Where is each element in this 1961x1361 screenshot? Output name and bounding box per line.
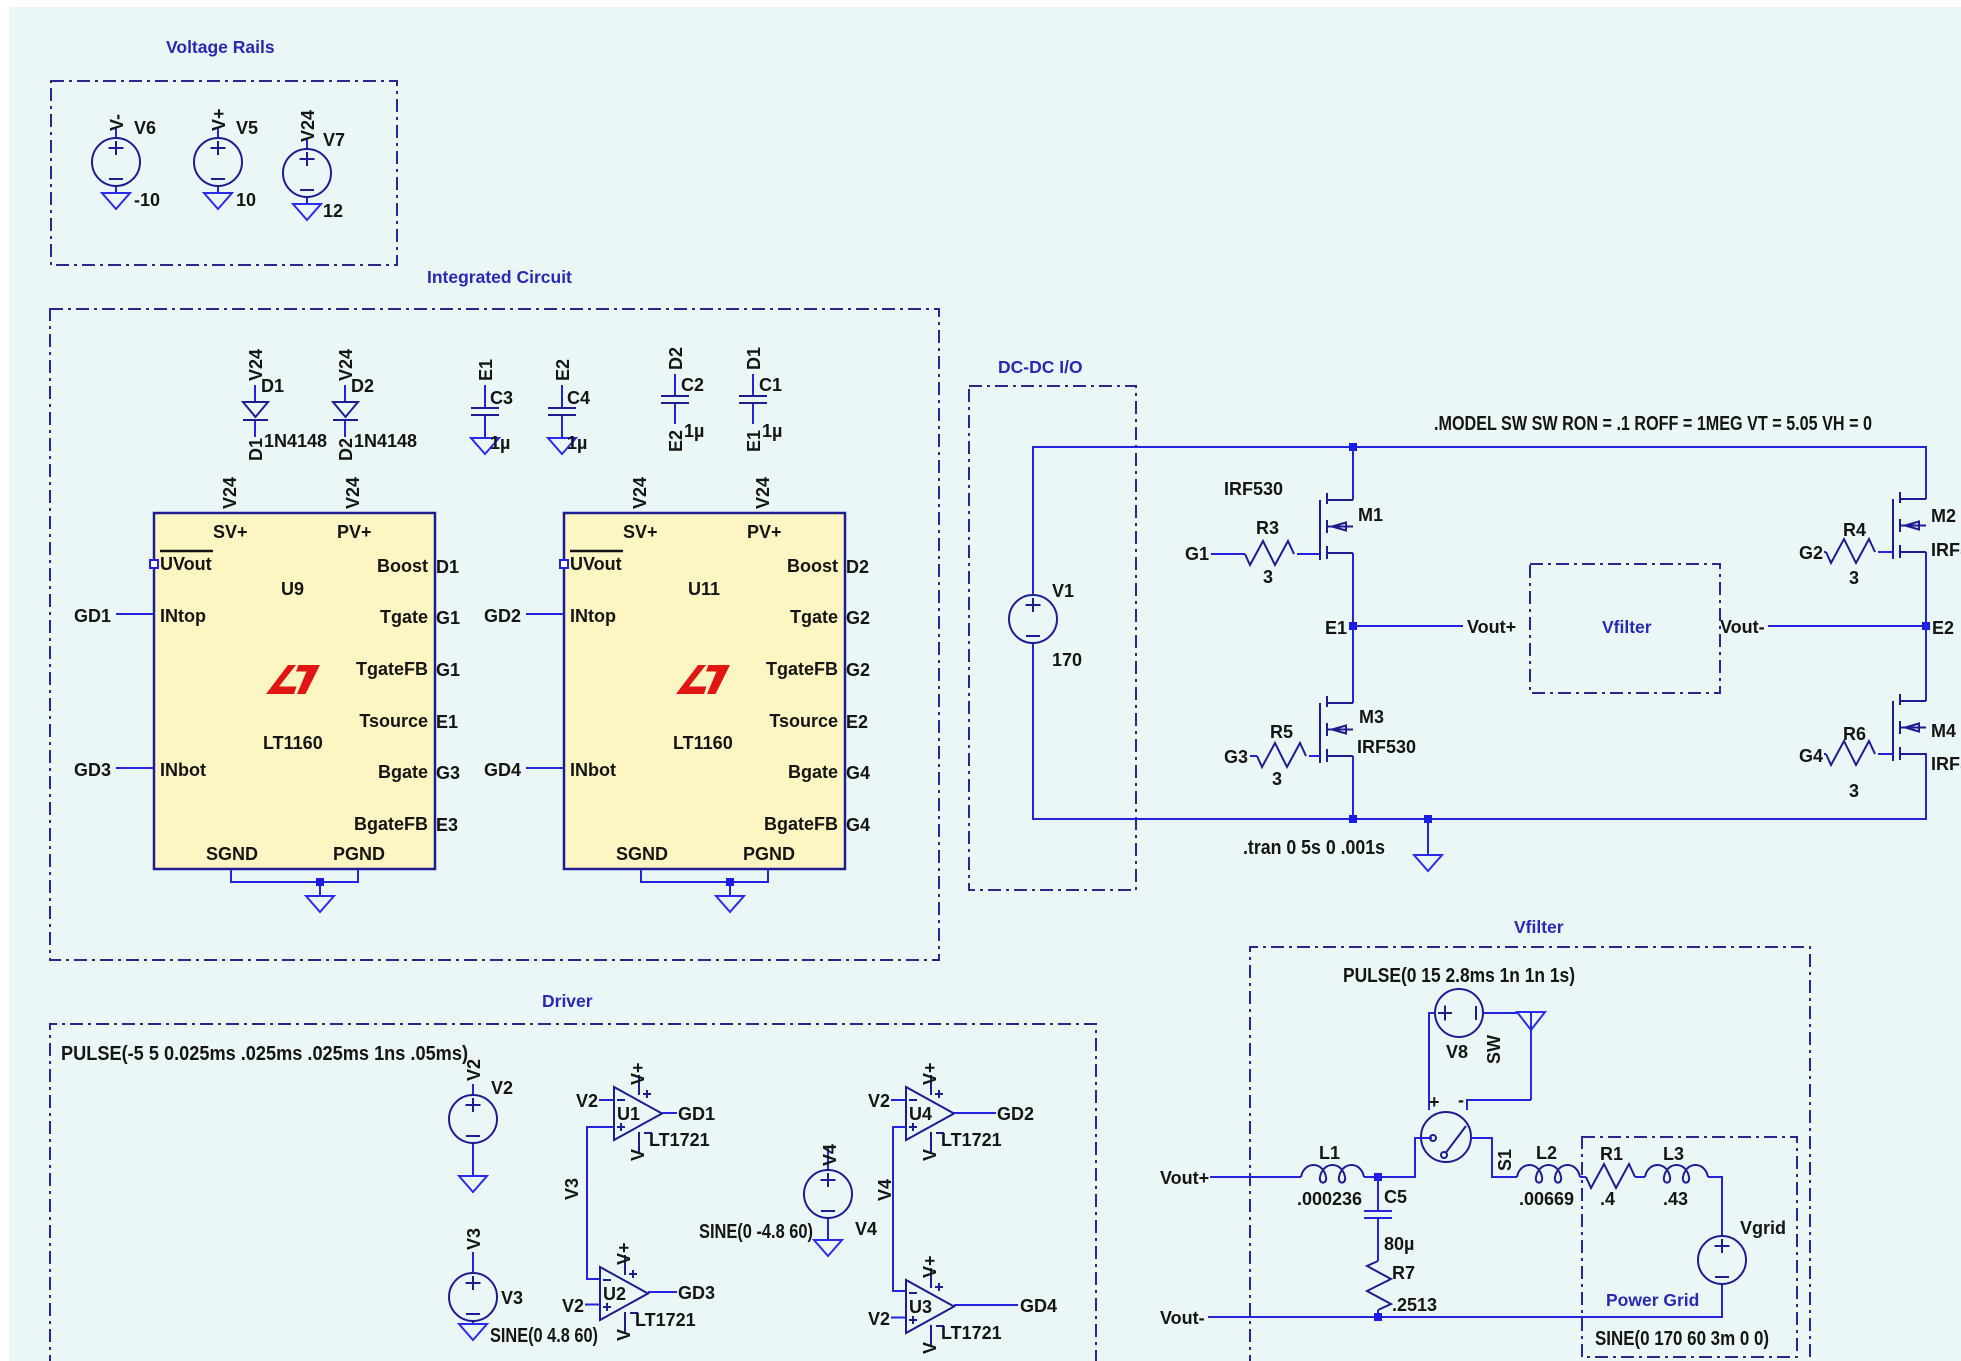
wire M4 source to bottom rail (1925, 754, 1927, 819)
voltage rails dashed box (51, 81, 397, 265)
svg-text:Tgate: Tgate (380, 607, 428, 627)
wire top rail V1 to M2 (1033, 447, 1926, 594)
svg-text:U9: U9 (281, 579, 304, 599)
svg-text:D1: D1 (744, 347, 764, 370)
svg-text:3: 3 (1849, 568, 1859, 588)
svg-text:GD3: GD3 (678, 1283, 715, 1303)
ground of DC-DC loop (1414, 855, 1442, 871)
svg-text:V: V (628, 1149, 648, 1161)
junction E1 (1349, 622, 1357, 630)
ground below C3 (471, 438, 499, 454)
wire stub V2 (472, 1084, 474, 1176)
ground below V6 (102, 193, 130, 209)
voltage source V7 (283, 149, 331, 197)
svg-text:V1: V1 (1052, 581, 1074, 601)
svg-text:Vout-: Vout- (1720, 617, 1765, 637)
junction top rail M1 drain (1349, 443, 1357, 451)
svg-text:E3: E3 (436, 815, 458, 835)
svg-text:12: 12 (323, 201, 343, 221)
svg-text:PULSE(-5 5 0.025ms .025ms .025: PULSE(-5 5 0.025ms .025ms .025ms 1ns .05… (61, 1043, 468, 1065)
diode D2 stubs (344, 385, 346, 437)
svg-text:V+: V+ (628, 1062, 648, 1085)
svg-text:G3: G3 (1224, 747, 1248, 767)
svg-text:170: 170 (1052, 650, 1082, 670)
ground stub bottom rail (1427, 819, 1429, 855)
svg-text:M2: M2 (1931, 506, 1956, 526)
svg-text:Boost: Boost (787, 556, 838, 576)
ground below V5 (204, 193, 232, 209)
svg-text:V+: V+ (920, 1062, 940, 1085)
wire U4 output GD2 (954, 1112, 996, 1114)
svg-text:GD4: GD4 (1020, 1296, 1057, 1316)
svg-text:V: V (920, 1342, 940, 1354)
transistor M1 (1320, 493, 1353, 560)
wire M1 source to E1 to M3 drain (1352, 553, 1354, 703)
junction U9 ground (316, 878, 324, 886)
transistor M4 (1893, 694, 1926, 761)
svg-text:E2: E2 (1932, 618, 1954, 638)
wire R1 to L3 (1635, 1176, 1645, 1178)
svg-text:U4: U4 (909, 1104, 932, 1124)
junction U11 ground (726, 878, 734, 886)
IC U9 body LT1160 (154, 513, 435, 869)
svg-text:E1: E1 (744, 430, 764, 452)
svg-text:.MODEL SW SW RON = .1 ROFF = 1: .MODEL SW SW RON = .1 ROFF = 1MEG VT = 5… (1434, 413, 1872, 435)
svg-text:V4: V4 (855, 1219, 877, 1239)
svg-text:D2: D2 (336, 438, 356, 461)
svg-text:R6: R6 (1843, 724, 1866, 744)
resistor R7 vertical (1367, 1261, 1391, 1310)
wire R3 to M1 gate (1297, 553, 1320, 555)
svg-text:V2: V2 (868, 1091, 890, 1111)
diode D1 (243, 402, 268, 420)
inductor L1 (1301, 1165, 1364, 1183)
svg-text:E2: E2 (846, 712, 868, 732)
ground below V7 (293, 204, 321, 220)
svg-text:SGND: SGND (206, 844, 258, 864)
wire Vout+ to L1 (1210, 1176, 1301, 1178)
wire stub V4 (827, 1148, 829, 1240)
wire G2 to R4 (1824, 551, 1826, 553)
svg-text:D1: D1 (261, 376, 284, 396)
vfilter dashed box (1250, 947, 1810, 1361)
capacitor C4 stubs (561, 385, 563, 438)
capacitor C1 stubs (752, 374, 754, 424)
svg-text:SW: SW (1484, 1035, 1504, 1064)
svg-text:Driver: Driver (542, 991, 593, 1011)
svg-text:BgateFB: BgateFB (764, 814, 838, 834)
junction C5 top (1374, 1173, 1382, 1181)
wire U3 output GD4 (954, 1304, 1018, 1306)
svg-text:R3: R3 (1256, 518, 1279, 538)
svg-text:IRF530: IRF530 (1931, 754, 1961, 774)
svg-text:IRF530: IRF530 (1357, 737, 1416, 757)
wire V8 minus to antenna node (1483, 1012, 1517, 1014)
svg-text:3: 3 (1272, 769, 1282, 789)
svg-text:L3: L3 (1663, 1144, 1684, 1164)
svg-text:Vgrid: Vgrid (1740, 1218, 1786, 1238)
ground below U11 (716, 896, 744, 912)
svg-text:Boost: Boost (377, 556, 428, 576)
svg-text:GD3: GD3 (74, 760, 111, 780)
junction Vout- R7 (1374, 1313, 1382, 1321)
svg-text:U11: U11 (688, 579, 720, 599)
svg-text:DC-DC I/O: DC-DC I/O (998, 357, 1083, 377)
svg-text:G3: G3 (436, 763, 460, 783)
wire Vout- rail (1208, 1284, 1722, 1317)
svg-text:Vout-: Vout- (1160, 1308, 1205, 1328)
svg-text:V-: V- (107, 114, 127, 131)
capacitor C5 (1364, 1177, 1392, 1261)
svg-text:IRF530: IRF530 (1931, 540, 1961, 560)
svg-text:PULSE(0 15 2.8ms 1n 1n 1s): PULSE(0 15 2.8ms 1n 1n 1s) (1343, 965, 1575, 987)
svg-text:U1: U1 (617, 1104, 640, 1124)
svg-text:V: V (920, 1149, 940, 1161)
vfilter reference dashed box (1530, 564, 1720, 693)
svg-text:.tran 0 5s 0 .001s: .tran 0 5s 0 .001s (1243, 837, 1385, 859)
junction bottom rail M3 (1349, 815, 1357, 823)
svg-text:PGND: PGND (743, 844, 795, 864)
wire GD4 to INbot U11 (526, 767, 564, 769)
svg-text:M4: M4 (1931, 721, 1956, 741)
svg-text:V2: V2 (868, 1309, 890, 1329)
resistor R6 (1826, 741, 1875, 765)
svg-text:R7: R7 (1392, 1263, 1415, 1283)
wire M3 source to bottom rail (1352, 756, 1354, 819)
svg-text:D2: D2 (666, 347, 686, 370)
wire U1 output GD1 (662, 1112, 677, 1114)
wire stub V7 (306, 138, 308, 204)
svg-text:G2: G2 (1799, 543, 1823, 563)
svg-text:LT1721: LT1721 (941, 1323, 1002, 1343)
svg-text:PV+: PV+ (337, 522, 372, 542)
svg-text:G4: G4 (846, 815, 870, 835)
svg-text:1µ: 1µ (490, 433, 510, 453)
svg-text:LT1721: LT1721 (941, 1130, 1002, 1150)
wire GD3 to INbot (116, 767, 154, 769)
voltage source V4 (804, 1170, 852, 1218)
svg-text:UVout: UVout (570, 554, 622, 574)
wire V2 to U2 plus input (585, 1304, 600, 1306)
capacitor C1 (739, 396, 767, 403)
svg-text:80µ: 80µ (1384, 1234, 1414, 1254)
integrated circuit dashed box (50, 309, 939, 960)
svg-text:LT1721: LT1721 (649, 1130, 710, 1150)
UVout open pin square U11 (560, 560, 568, 568)
svg-text:C3: C3 (490, 388, 513, 408)
svg-text:V+: V+ (614, 1242, 634, 1265)
U9 ground bus wires (231, 869, 358, 896)
resistor R3 (1245, 541, 1294, 565)
svg-text:1µ: 1µ (567, 433, 587, 453)
svg-text:SINE(0 -4.8 60): SINE(0 -4.8 60) (699, 1221, 813, 1243)
svg-text:V3: V3 (464, 1228, 484, 1250)
wire switch right to L2 (1471, 1138, 1517, 1177)
svg-text:V2: V2 (562, 1296, 584, 1316)
svg-text:BgateFB: BgateFB (354, 814, 428, 834)
capacitor C2 stubs (674, 374, 676, 424)
wire bottom rail (1033, 644, 1926, 819)
ground below U9 (306, 896, 334, 912)
svg-text:.2513: .2513 (1392, 1295, 1437, 1315)
svg-text:PV+: PV+ (747, 522, 782, 542)
wire L3 to Vgrid (1708, 1177, 1722, 1236)
wire G1 to R3 (1211, 553, 1245, 555)
capacitor C3 (471, 408, 499, 415)
svg-text:SINE(0 170 60 3m 0 0): SINE(0 170 60 3m 0 0) (1595, 1328, 1769, 1350)
voltage source V3 (449, 1273, 497, 1321)
svg-text:UVout: UVout (160, 554, 212, 574)
svg-text:V2: V2 (464, 1059, 484, 1081)
svg-text:V24: V24 (343, 477, 363, 509)
svg-text:E2: E2 (666, 430, 686, 452)
svg-text:1µ: 1µ (684, 421, 704, 441)
svg-text:C4: C4 (567, 388, 590, 408)
svg-text:D2: D2 (846, 557, 869, 577)
inductor L2 (1517, 1165, 1580, 1183)
wire M2 source to E2 to M4 drain (1925, 552, 1927, 701)
svg-text:G2: G2 (846, 608, 870, 628)
wire V2 to U4 minus input (891, 1099, 906, 1101)
svg-text:V+: V+ (209, 108, 229, 131)
svg-text:SGND: SGND (616, 844, 668, 864)
svg-text:Vfilter: Vfilter (1602, 617, 1652, 637)
svg-text:TgateFB: TgateFB (766, 659, 838, 679)
UVout open pin square (150, 560, 158, 568)
svg-text:G1: G1 (436, 608, 460, 628)
resistor R4 (1826, 539, 1875, 563)
svg-text:GD2: GD2 (484, 606, 521, 626)
capacitor C4 (548, 408, 576, 415)
svg-text:G1: G1 (436, 660, 460, 680)
svg-text:M1: M1 (1358, 505, 1383, 525)
svg-text:G4: G4 (1799, 746, 1823, 766)
svg-text:SV+: SV+ (623, 522, 658, 542)
svg-text:E1: E1 (436, 712, 458, 732)
voltage source V2 (449, 1095, 497, 1143)
voltage source V6 (92, 138, 140, 186)
wire stub V5 (217, 127, 219, 193)
transistor M2 (1893, 492, 1926, 559)
svg-text:1N4148: 1N4148 (354, 431, 417, 451)
svg-text:Vout+: Vout+ (1160, 1168, 1209, 1188)
svg-text:.4: .4 (1600, 1189, 1615, 1209)
wire M1 drain (1352, 447, 1354, 500)
svg-text:LT1160: LT1160 (263, 733, 323, 753)
svg-text:INtop: INtop (160, 606, 206, 626)
svg-text:D1: D1 (436, 557, 459, 577)
svg-text:G1: G1 (1185, 544, 1209, 564)
svg-text:Voltage Rails: Voltage Rails (166, 37, 275, 57)
voltage source V8 rotated (1435, 989, 1483, 1037)
svg-text:E1: E1 (1325, 618, 1347, 638)
svg-text:10: 10 (236, 190, 256, 210)
svg-text:GD1: GD1 (74, 606, 111, 626)
wire L2 to R1 (1580, 1176, 1586, 1178)
LT logo U9 (266, 665, 320, 694)
svg-text:.000236: .000236 (1297, 1189, 1362, 1209)
wire R7 to Vout- rail (1377, 1310, 1379, 1317)
op-amp U4 (906, 1075, 954, 1152)
svg-text:E2: E2 (553, 359, 573, 381)
wire GD2 to INtop U11 (526, 613, 564, 615)
svg-text:V3: V3 (562, 1178, 582, 1200)
svg-text:Vout+: Vout+ (1467, 617, 1516, 637)
svg-text:D1: D1 (246, 438, 266, 461)
transistor M3 (1320, 696, 1353, 763)
diode D2 (333, 402, 358, 420)
driver dashed box (50, 1024, 1096, 1361)
capacitor C2 (661, 396, 689, 403)
wire stub V3 (472, 1252, 474, 1324)
wire L1 to C5 junction to switch (1364, 1138, 1432, 1177)
svg-text:GD4: GD4 (484, 760, 521, 780)
svg-text:3: 3 (1263, 567, 1273, 587)
op-amp U2 (600, 1255, 648, 1332)
svg-text:V2: V2 (576, 1091, 598, 1111)
wire Vout- to E2 (1768, 625, 1926, 627)
svg-text:GD1: GD1 (678, 1104, 715, 1124)
svg-text:Power Grid: Power Grid (1606, 1290, 1699, 1310)
wire stub V6 (115, 127, 117, 193)
svg-text:V24: V24 (220, 477, 240, 509)
voltage source V5 (194, 138, 242, 186)
IC U11 body LT1160 (564, 513, 845, 869)
svg-text:SINE(0 4.8 60): SINE(0 4.8 60) (490, 1325, 598, 1347)
antenna symbol net SW (1517, 1012, 1545, 1100)
svg-text:1N4148: 1N4148 (264, 431, 327, 451)
svg-text:R5: R5 (1270, 722, 1293, 742)
svg-text:-10: -10 (134, 190, 160, 210)
svg-text:Bgate: Bgate (378, 762, 428, 782)
wire antenna to switch minus control (1467, 1100, 1531, 1110)
wire G4 to R6 (1824, 753, 1826, 755)
wire R6 to M4 gate (1878, 753, 1893, 755)
dc-dc io dashed box (969, 386, 1136, 890)
svg-text:M3: M3 (1359, 707, 1384, 727)
svg-text:V+: V+ (920, 1255, 940, 1278)
svg-text:1µ: 1µ (762, 421, 782, 441)
ground below V2 (459, 1176, 487, 1192)
svg-text:G4: G4 (846, 763, 870, 783)
svg-text:V7: V7 (323, 130, 345, 150)
svg-text:.43: .43 (1663, 1189, 1688, 1209)
svg-text:V2: V2 (491, 1078, 513, 1098)
svg-text:3: 3 (1849, 781, 1859, 801)
svg-text:C5: C5 (1384, 1187, 1407, 1207)
wire V3 net down from U1 plus input (587, 1127, 614, 1279)
diode D1 stubs (254, 385, 256, 437)
svg-text:Tgate: Tgate (790, 607, 838, 627)
svg-text:.00669: .00669 (1519, 1189, 1574, 1209)
wire V2 to U1 minus input (599, 1099, 614, 1101)
wire V4 net down from U4 plus input (893, 1127, 906, 1291)
svg-text:L2: L2 (1536, 1143, 1557, 1163)
svg-text:V6: V6 (134, 118, 156, 138)
op-amp U1 (614, 1075, 662, 1152)
svg-text:-: - (1458, 1090, 1464, 1110)
wire G3 to R5 (1250, 755, 1257, 757)
svg-text:V24: V24 (753, 477, 773, 509)
svg-text:V24: V24 (298, 110, 318, 142)
svg-text:LT1721: LT1721 (635, 1310, 696, 1330)
wire R5 to M3 gate (1309, 755, 1320, 757)
svg-text:V24: V24 (630, 477, 650, 509)
svg-text:INtop: INtop (570, 606, 616, 626)
inductor L3 (1645, 1165, 1708, 1183)
svg-text:Bgate: Bgate (788, 762, 838, 782)
svg-text:GD2: GD2 (997, 1104, 1034, 1124)
svg-text:U3: U3 (909, 1297, 932, 1317)
voltage source Vgrid (1698, 1236, 1746, 1284)
svg-text:C1: C1 (759, 375, 782, 395)
svg-text:Integrated Circuit: Integrated Circuit (427, 267, 572, 287)
svg-text:INbot: INbot (570, 760, 616, 780)
ground below V4 (814, 1240, 842, 1256)
wire R4 to M2 gate (1878, 551, 1893, 553)
U11 ground bus wires (641, 869, 768, 896)
svg-text:TgateFB: TgateFB (356, 659, 428, 679)
svg-text:V3: V3 (501, 1288, 523, 1308)
junction bottom rail gnd (1424, 815, 1432, 823)
voltage source V1 (1009, 595, 1057, 643)
svg-text:V4: V4 (820, 1144, 840, 1166)
svg-text:INbot: INbot (160, 760, 206, 780)
power grid dashed box (1582, 1137, 1797, 1357)
wire U2 output GD3 (648, 1291, 677, 1293)
wire GD1 to INtop (116, 613, 154, 615)
svg-text:U2: U2 (603, 1284, 626, 1304)
svg-text:Vfilter: Vfilter (1514, 917, 1564, 937)
svg-text:G2: G2 (846, 660, 870, 680)
resistor R5 (1257, 743, 1306, 767)
LT logo U11 (676, 665, 730, 694)
ground below C4 (548, 438, 576, 454)
junction E2 (1922, 622, 1930, 630)
svg-text:R1: R1 (1600, 1144, 1623, 1164)
svg-text:C2: C2 (681, 375, 704, 395)
svg-text:E1: E1 (476, 359, 496, 381)
capacitor C3 stubs (484, 385, 486, 438)
svg-text:SV+: SV+ (213, 522, 248, 542)
svg-text:Tsource: Tsource (769, 711, 838, 731)
svg-text:+: + (1429, 1092, 1440, 1112)
ground below V3 (459, 1324, 487, 1340)
svg-text:V4: V4 (875, 1179, 895, 1201)
op-amp U3 (906, 1268, 954, 1345)
svg-text:Tsource: Tsource (359, 711, 428, 731)
resistor R1 (1586, 1164, 1635, 1188)
svg-text:PGND: PGND (333, 844, 385, 864)
svg-text:R4: R4 (1843, 520, 1866, 540)
wire V8 plus to switch control (1429, 1013, 1435, 1110)
svg-text:IRF530: IRF530 (1224, 479, 1283, 499)
svg-text:D2: D2 (351, 376, 374, 396)
svg-text:S1: S1 (1495, 1149, 1515, 1171)
switch S1 body (1421, 1112, 1471, 1162)
wire E1 to Vout+ (1353, 625, 1463, 627)
wire V2 to U3 plus input (891, 1317, 906, 1319)
svg-text:LT1160: LT1160 (673, 733, 733, 753)
svg-text:V5: V5 (236, 118, 258, 138)
svg-text:V: V (614, 1329, 634, 1341)
svg-text:L1: L1 (1319, 1143, 1340, 1163)
svg-text:V8: V8 (1446, 1042, 1468, 1062)
